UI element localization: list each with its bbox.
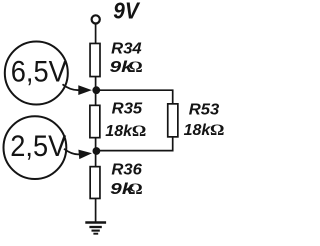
svg-text:R34: R34 xyxy=(111,41,142,58)
svg-text:R36: R36 xyxy=(111,161,142,178)
svg-text:Ω: Ω xyxy=(210,122,224,139)
svg-text:Ω: Ω xyxy=(132,123,147,140)
svg-text:18k: 18k xyxy=(105,123,133,140)
svg-text:2,5V: 2,5V xyxy=(10,130,66,163)
svg-text:6,5V: 6,5V xyxy=(11,55,67,88)
svg-text:Ω: Ω xyxy=(128,181,143,198)
svg-text:9V: 9V xyxy=(113,0,141,24)
svg-text:R35: R35 xyxy=(112,101,144,118)
svg-text:18k: 18k xyxy=(184,122,212,139)
svg-text:Ω: Ω xyxy=(128,59,143,76)
svg-text:R53: R53 xyxy=(189,102,220,119)
